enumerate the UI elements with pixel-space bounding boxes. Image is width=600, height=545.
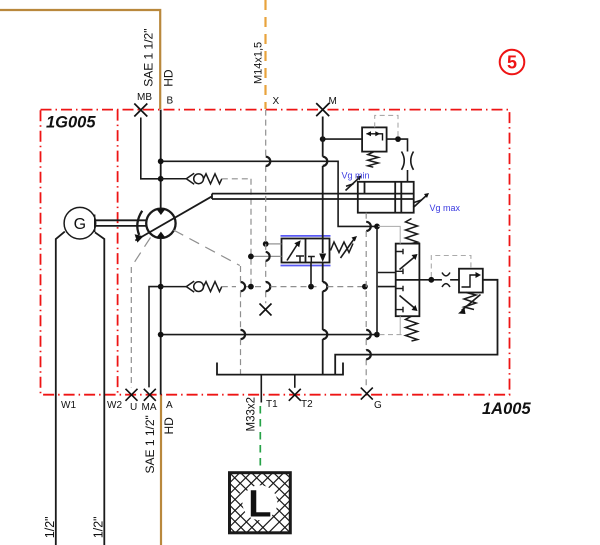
svg-text:HD: HD xyxy=(162,69,176,87)
valve V2 pressure controller xyxy=(396,244,420,317)
node junction lineD-V2 xyxy=(374,332,380,338)
filter L hatched box xyxy=(230,473,291,533)
wire pump linkage dashed to U port xyxy=(131,238,150,268)
wire case drain line D xyxy=(161,334,377,336)
wire RV1 out to orifice xyxy=(387,139,408,182)
svg-text:W1: W1 xyxy=(61,400,76,411)
control rod double line xyxy=(212,194,414,199)
node X plug cross xyxy=(260,304,272,316)
wire V2 to orifice O2 xyxy=(419,279,459,281)
wire green dashed suction to filter xyxy=(259,406,261,471)
V1 body xyxy=(282,239,330,263)
svg-text:T1: T1 xyxy=(266,399,278,410)
V3 pilot dashed xyxy=(431,256,471,278)
svg-text:T2: T2 xyxy=(301,399,313,410)
node junction B-y161 xyxy=(158,158,164,164)
hop arc G line over line E xyxy=(366,350,371,359)
wire CV1 dashed tail to valve port xyxy=(222,179,251,287)
orifice O2 xyxy=(442,273,450,288)
wire drain line C dashed xyxy=(222,286,365,288)
check valve CV1 xyxy=(161,173,222,184)
pump variable arrow diagonal xyxy=(135,196,212,240)
wire pump linkage dashed to control piston xyxy=(174,230,240,266)
wire lineD to V2 spring dashed xyxy=(380,334,404,336)
wire T1 drop xyxy=(260,375,262,403)
svg-text:Vg min: Vg min xyxy=(342,171,370,181)
svg-text:5: 5 xyxy=(507,53,517,73)
adjuster Vg max arrow xyxy=(413,195,427,208)
node junction V2-V3 pilot xyxy=(428,277,434,283)
node G cross xyxy=(361,388,373,400)
V1 left port wires gray xyxy=(251,244,282,257)
node junction M-RV1 xyxy=(320,136,326,142)
RV1 spring xyxy=(368,152,379,168)
shaft G to pump xyxy=(95,215,147,233)
wire M to RV1 xyxy=(323,138,362,140)
wire orange supply top xyxy=(0,10,160,109)
svg-text:MB: MB xyxy=(137,92,152,103)
balloon 5 red circle xyxy=(500,50,525,75)
RV1 pilot dashed xyxy=(375,115,398,136)
wire Vg control line y226 hop over G line xyxy=(366,222,371,231)
wire V3 out to line E xyxy=(335,280,497,375)
V2 gray cartridge frame xyxy=(378,226,400,334)
hop arcs on verticals crossing line C xyxy=(241,282,246,291)
pump flow triangle top xyxy=(156,209,165,215)
svg-text:G: G xyxy=(374,400,382,411)
node MB cross xyxy=(134,104,147,117)
wire M line vertical with hops xyxy=(323,117,328,375)
node T2 cross xyxy=(289,389,301,401)
wire orange dashed port X xyxy=(264,0,266,109)
svg-text:A: A xyxy=(166,400,173,411)
pump P1 variable displacement xyxy=(146,209,175,238)
tank manifold bracket xyxy=(217,363,343,375)
V1 left arrow xyxy=(287,245,297,261)
wire gauge line G dashed xyxy=(365,213,367,388)
node junction y226-V2 xyxy=(374,224,380,230)
wire T2 drop xyxy=(294,375,296,388)
node junction X-V1 xyxy=(263,241,269,247)
svg-text:MA: MA xyxy=(142,402,157,413)
svg-text:1/2": 1/2" xyxy=(91,516,105,538)
svg-text:M33x2: M33x2 xyxy=(246,397,258,432)
svg-text:X: X xyxy=(273,96,280,107)
svg-text:B: B xyxy=(167,95,174,106)
V2 upper arrow xyxy=(400,257,415,270)
V2 spring top xyxy=(406,219,418,244)
V3 spring adjustable xyxy=(464,293,476,310)
svg-text:1A005: 1A005 xyxy=(482,400,531,418)
pump flow triangle bottom xyxy=(156,232,165,238)
svg-text:W2: W2 xyxy=(107,400,122,411)
svg-text:M14x1,5: M14x1,5 xyxy=(253,42,265,84)
node junction V1drain-lineC xyxy=(308,284,314,290)
svg-text:M: M xyxy=(329,96,337,107)
wire V2 port connections xyxy=(378,273,396,287)
svg-text:U: U xyxy=(130,402,137,413)
node junction A-CV2 xyxy=(158,284,164,290)
wire MB branch xyxy=(141,118,161,179)
svg-text:1G005: 1G005 xyxy=(46,114,96,132)
svg-text:SAE 1 1/2": SAE 1 1/2" xyxy=(142,29,156,87)
node junction A-lineD xyxy=(158,332,164,338)
svg-text:1/2": 1/2" xyxy=(43,516,57,538)
V2 port marks xyxy=(396,249,403,313)
relief valve RV1 top xyxy=(362,127,387,151)
node junction B-MB-CV1 xyxy=(158,176,164,182)
wire B main line lower to port A xyxy=(160,238,162,395)
wire orange port A below border xyxy=(160,395,162,545)
wire V2 feed vertical xyxy=(376,226,378,334)
wire X pilot dashed vertical with hops xyxy=(265,110,267,304)
motor bell housing to W lines xyxy=(56,232,65,545)
pump rotation arrow arc xyxy=(137,211,142,235)
wire B to pilot (y161) across to x338 down to y226 to valve assembly xyxy=(161,161,377,226)
V1 spring with arrow right xyxy=(331,242,354,253)
V1 blocked port T marks xyxy=(296,256,315,263)
svg-text:G: G xyxy=(74,216,86,233)
node M cross xyxy=(316,103,329,116)
adjuster Vg min arrow xyxy=(346,177,361,191)
blue highlight lines xyxy=(281,236,331,266)
wire A to MA branch xyxy=(149,287,161,388)
svg-text:SAE 1 1/2": SAE 1 1/2" xyxy=(143,415,157,473)
node junction CV1tail-lineC xyxy=(248,284,254,290)
svg-text:Vg max: Vg max xyxy=(430,203,461,213)
frame 1G005/1A005 red dash-dot border xyxy=(41,110,510,395)
orifice O1 xyxy=(402,152,414,170)
node junction RV1 pilot xyxy=(395,136,401,142)
hop arcs over line D xyxy=(241,330,371,339)
wire V1 drain stub xyxy=(310,263,312,287)
RV1 internal double arrow xyxy=(367,134,383,141)
node MA cross xyxy=(144,389,156,401)
node U cross xyxy=(126,389,138,401)
node junction CV1-V1 xyxy=(248,254,254,260)
svg-text:HD: HD xyxy=(162,417,176,435)
valve V3 relief xyxy=(459,269,483,293)
V2 lower arrow xyxy=(400,296,415,309)
node junction Gline-lineC xyxy=(362,284,368,290)
svg-text:L: L xyxy=(248,483,271,525)
electric motor G circle xyxy=(64,207,96,239)
V1 pilot arrowhead from M line xyxy=(319,254,326,263)
stroking cylinder body xyxy=(358,182,414,213)
wire B main line upper xyxy=(160,110,162,209)
V2 spring bottom xyxy=(406,316,418,341)
